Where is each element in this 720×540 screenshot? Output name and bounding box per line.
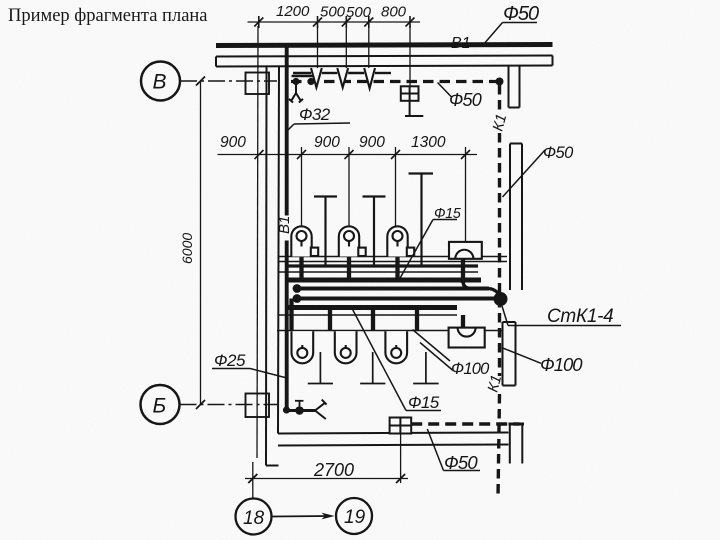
toilet 3 upper <box>387 226 414 256</box>
water main B1 top thick <box>216 45 553 46</box>
junction CtK1-4 <box>494 292 508 306</box>
toilet 1 lower <box>292 331 314 363</box>
circle axis Б <box>141 385 180 424</box>
toilet 2 lower <box>335 331 357 363</box>
fork outlet <box>315 400 327 419</box>
label line CtK1-4 <box>501 301 622 326</box>
stall partition 3 <box>413 352 438 384</box>
pilaster at axis Б <box>246 394 270 418</box>
washbasin V3 <box>364 68 375 88</box>
sewer pipe Ф100 upper <box>288 278 481 283</box>
riser K1 dashed vertical <box>498 85 500 497</box>
dimension line 6000 vertical <box>196 77 205 410</box>
riser B1 vertical thick <box>285 47 289 216</box>
dimension row 1 line <box>248 22 421 86</box>
leader+underline Ф15 lower <box>351 306 442 411</box>
pipe with node 2 <box>297 297 495 301</box>
wall right segment S3 <box>503 322 516 386</box>
water header pipe <box>287 264 478 267</box>
tap stand T1 <box>314 197 337 265</box>
grid axis vertical line <box>257 26 258 458</box>
wall top horizontal <box>216 56 553 67</box>
toilet 3 lower <box>385 331 407 363</box>
pipe with node 1 <box>297 287 489 291</box>
wall right segment S2 <box>510 144 522 291</box>
sink fixture lower right <box>449 328 485 348</box>
dimension 2700 bottom <box>245 434 408 499</box>
stall partition 1 <box>308 352 333 384</box>
upper connection stubs <box>302 257 464 284</box>
sink fixture upper right <box>449 242 482 259</box>
circle 19 <box>336 498 372 534</box>
leader+underline Ф32 <box>288 123 351 131</box>
dashed pipe Ф50 top <box>291 80 500 83</box>
tap stand T3 <box>409 174 434 265</box>
washbasin V1 <box>311 68 322 88</box>
toilet 1 upper <box>291 226 318 256</box>
leader+underline Ф15 upper <box>399 220 457 281</box>
sewer pipe Ф100 lower <box>287 305 457 310</box>
bottom tap assembly <box>285 409 315 412</box>
cistern square top <box>401 86 424 116</box>
arrow 18 to 19 <box>273 513 335 520</box>
wall right stub S1 <box>509 66 520 108</box>
stall partition 2 <box>360 352 385 384</box>
pilaster at axis B <box>246 73 270 95</box>
circle axis B <box>141 62 180 101</box>
wall bottom horizontal <box>278 433 509 446</box>
leader Ф50 dashed label <box>438 83 453 98</box>
wall right segment S4 bottom tee <box>509 424 525 464</box>
leader Ф50 top right <box>483 23 537 46</box>
leaders Ф100 left <box>413 330 454 371</box>
lower connection stubs <box>292 299 464 332</box>
leader Ф50 right <box>503 150 546 197</box>
valve <box>295 406 304 415</box>
wall left vertical <box>266 67 279 466</box>
toilet 2 upper <box>339 226 366 256</box>
upper tap fork <box>289 84 303 103</box>
dimension row 2 ticks <box>255 150 471 159</box>
leader+underline Ф25 <box>212 369 285 378</box>
leader Ф100 right <box>502 348 542 364</box>
dashed pipe Ф50 bottom <box>411 422 519 425</box>
washbasin rail <box>292 73 392 76</box>
washbasin V2 <box>337 68 348 88</box>
leader+underline Ф50 bottom <box>427 429 480 471</box>
dimension row 1 ticks <box>254 16 414 28</box>
dimension row 2 line <box>218 147 478 242</box>
scan noise overlay <box>0 0 1 1</box>
washstand square bottom <box>390 418 412 434</box>
manifold channel lines <box>277 257 507 331</box>
tap stand T2 <box>363 197 386 265</box>
axis line Б dash-dot <box>180 404 278 406</box>
circle 18 <box>236 499 272 535</box>
axis line B dash-dot <box>180 80 277 82</box>
